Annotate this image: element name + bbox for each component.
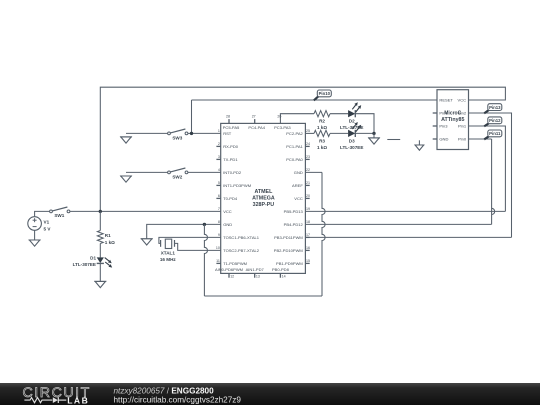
svg-text:3: 3 [218,155,220,159]
svg-text:TOSC1-PB6-XTAL1: TOSC1-PB6-XTAL1 [223,235,260,240]
svg-text:15: 15 [306,259,310,263]
ground at crystal GND net [141,239,153,245]
switch SW3 [168,132,171,135]
ground at SW3 [120,137,132,143]
svg-text:RESET: RESET [439,98,453,103]
svg-text:VCC: VCC [458,98,467,103]
node junction V1 rail / R1 [99,210,102,213]
ground below D2/D3 [368,138,380,144]
resistor R2 [314,111,330,117]
wire ATMEGA PB4-PD12 pin 18 run [305,223,491,225]
wire SW2 to ATMEGA INT0-PD2 pin 4 [188,171,221,173]
LED D1 [97,257,104,263]
svg-text:AIN1-PD7: AIN1-PD7 [246,267,265,272]
node flag Pin12 [484,123,489,126]
wire V1 to SW1 [35,211,50,217]
svg-text:PC3-PA3: PC3-PA3 [274,125,291,130]
svg-text:24: 24 [306,142,310,146]
svg-text:1 kΩ: 1 kΩ [317,125,327,130]
svg-text:LTL-307EE: LTL-307EE [73,262,96,267]
wire SW3 to ATMEGA RST pin 1 [188,132,221,134]
resistor R1 [97,231,103,244]
svg-text:14: 14 [282,275,286,279]
wire vertical PD11 to ATtiny Pin2 [469,113,512,237]
svg-text:ATTiny85: ATTiny85 [441,117,464,123]
wire crystal to TOSC2 [175,243,221,250]
svg-text:D2: D2 [349,119,355,124]
ground below V1 [34,230,36,240]
svg-text:PC1-PA1: PC1-PA1 [286,144,303,149]
crystal XTAL1 [160,240,162,247]
svg-text:18: 18 [306,220,310,224]
wire D1 cathode to ground [99,263,101,281]
node junction SW3 / RST / Pin10 rail [190,132,193,135]
node junction GND wire / crystal ground vertical [203,223,206,226]
svg-text:PB1-PD9PWM: PB1-PD9PWM [276,261,303,266]
svg-text:LTL-307EE: LTL-307EE [340,145,363,150]
wire vertical PD12 to ATtiny Pin0 with hop [492,139,495,224]
svg-text:23: 23 [306,155,310,159]
svg-text:R1: R1 [105,233,111,238]
svg-text:12: 12 [230,275,234,279]
svg-text:T0-PD4: T0-PD4 [223,196,238,201]
wire ATMEGA PB5-PD13 pin 19 run [305,210,505,212]
svg-text:26: 26 [277,115,281,119]
ground below D1 [94,281,106,287]
svg-text:328P-PU: 328P-PU [253,202,275,208]
svg-text:TX-PD1: TX-PD1 [223,157,238,162]
svg-text:D3: D3 [349,138,355,143]
svg-text:RST: RST [223,131,232,136]
wire Pin10 rail to ATtiny RESET [192,99,438,101]
wire ATtiny Pin0 stub [469,138,492,140]
floating ground [418,140,420,145]
svg-text:ntzxy8200657 / ENGG2800: ntzxy8200657 / ENGG2800 [114,387,215,396]
svg-text:V1: V1 [44,219,50,224]
wire SW1 to ATMEGA VCC pin 7 [70,210,221,212]
svg-text:PB0-PD8: PB0-PD8 [272,267,290,272]
svg-text:16: 16 [306,246,310,250]
svg-text:Pin3: Pin3 [439,124,448,129]
switch SW1 [50,210,53,213]
svg-text:Pin10: Pin10 [319,91,331,96]
svg-text:R2: R2 [319,119,325,124]
svg-text:8: 8 [218,220,220,224]
ground at SW2 [120,176,132,182]
svg-text:28: 28 [226,115,230,119]
svg-text:PB5-PD13: PB5-PD13 [284,209,304,214]
svg-text:1 kΩ: 1 kΩ [105,240,115,245]
svg-text:Pin11: Pin11 [489,131,501,136]
svg-text:20: 20 [306,194,310,198]
svg-text:5 V: 5 V [44,226,52,231]
svg-text:D1: D1 [90,255,96,260]
svg-text:6: 6 [218,194,220,198]
svg-text:9: 9 [218,233,220,237]
wire vertical PD13 to ATtiny Pin1 [469,126,506,211]
svg-text:10: 10 [216,246,220,250]
svg-text:XTAL1: XTAL1 [161,250,176,255]
wire R3 to LED D3 [330,132,348,134]
node flag Pin11 [484,136,489,139]
IC U1 ATMEGA 328P-PU microcontroller [221,123,306,273]
svg-text:http://circuitlab.com/cggtvs2z: http://circuitlab.com/cggtvs2zh27z9 [114,396,242,405]
svg-text:LAB: LAB [67,395,89,405]
svg-text:Pin0: Pin0 [458,137,467,142]
svg-text:PB3-PD11PWM: PB3-PD11PWM [274,235,303,240]
LED D2 [348,110,355,117]
wire SW3 ground lead [126,132,168,134]
svg-text:GND: GND [439,137,448,142]
wire VCC top rail from V1 net to ATtiny VCC [100,87,505,211]
svg-text:INT0-PD2: INT0-PD2 [223,170,242,175]
svg-text:TOSC2-PB7-XTAL2: TOSC2-PB7-XTAL2 [223,248,260,253]
svg-text:ATMEGA: ATMEGA [252,195,275,201]
svg-text:PC4-PA4: PC4-PA4 [248,125,265,130]
resistor R3 [314,130,330,136]
svg-text:PC0-PA0: PC0-PA0 [286,157,303,162]
node junction D2/D3 cathodes [372,132,375,135]
node flag Pin10 [314,96,319,100]
svg-text:17: 17 [306,233,310,237]
svg-text:Pin13: Pin13 [489,105,501,110]
svg-text:4: 4 [218,168,220,172]
floating wire stub [387,139,400,141]
wire D2 to ground junction [355,114,374,134]
wire PC2-PA2 to R3 [305,132,314,134]
wire ATMEGA GND pin 8 to ground [147,224,221,238]
wire PC3-PA3 to R2 [280,114,314,124]
svg-text:SW3: SW3 [172,136,182,141]
wire junction to ground [373,133,375,138]
svg-text:1 kΩ: 1 kΩ [317,145,327,150]
wire ATMEGA right GND pin 22 stub [305,171,322,173]
svg-text:R3: R3 [319,138,325,143]
svg-text:PC5-PA5: PC5-PA5 [223,125,240,130]
svg-text:MicroC: MicroC [444,111,461,117]
wire D3 to ground junction [355,132,374,134]
wire ATMEGA right GND pin 22 vertical with hops [322,172,325,296]
svg-text:7: 7 [218,207,220,211]
voltage source V1 [28,217,42,231]
CircuitLab logo [23,385,91,406]
svg-text:22: 22 [306,168,310,172]
wire SW2 ground lead [126,171,168,173]
LED D3 [348,130,355,137]
svg-text:GND: GND [223,222,232,227]
wire crystal ground vertical with hops [204,224,207,296]
svg-text:AIN0-PD6PWM: AIN0-PD6PWM [215,267,244,272]
wire ATMEGA PB3-PD11PWM pin 17 run [305,236,511,238]
svg-text:PB2-PD10PWM: PB2-PD10PWM [274,248,304,253]
wire vertical RST to Pin10 rail [191,100,193,133]
switch SW2 [168,171,171,174]
svg-text:19: 19 [306,207,310,211]
svg-text:VCC: VCC [223,209,232,214]
svg-text:13: 13 [256,275,260,279]
svg-text:AREF: AREF [292,183,303,188]
svg-text:RX-PD0: RX-PD0 [223,144,239,149]
svg-text:PB4-PD12: PB4-PD12 [284,222,304,227]
svg-text:1: 1 [218,129,220,133]
svg-text:VCC: VCC [294,196,303,201]
IC U2 ATtiny85 microcontroller [437,90,469,150]
svg-text:INT1-PD3PWM: INT1-PD3PWM [223,183,252,188]
svg-text:ATMEL: ATMEL [254,189,273,195]
wire bottom ground run [204,295,322,297]
svg-text:GND: GND [294,170,303,175]
svg-text:SW2: SW2 [172,175,182,180]
svg-text:T1-PD5PWM: T1-PD5PWM [223,261,247,266]
wire R2 to LED D2 [330,113,348,115]
svg-text:11: 11 [216,259,220,263]
svg-text:5: 5 [218,181,220,185]
svg-text:SW1: SW1 [54,213,64,218]
svg-text:PC2-PA2: PC2-PA2 [286,131,303,136]
svg-text:2: 2 [218,142,220,146]
svg-text:Pin12: Pin12 [489,118,501,123]
svg-text:21: 21 [306,181,310,185]
svg-text:27: 27 [252,115,256,119]
svg-text:Pin1: Pin1 [458,124,467,129]
svg-text:16 MHz: 16 MHz [160,257,177,262]
wire TOSC1 to crystal [159,237,221,243]
footer text [114,387,242,405]
node flag Pin13 [484,110,489,114]
svg-text:25: 25 [306,129,310,133]
